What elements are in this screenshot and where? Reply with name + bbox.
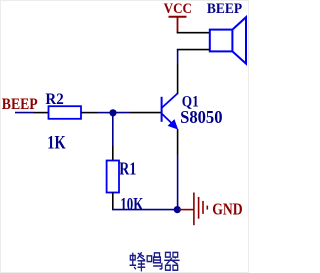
caption 鸣 (ming) xyxy=(147,253,162,269)
svg-text:R1: R1 xyxy=(119,160,136,180)
wire VCC to speaker top pin (black) xyxy=(177,32,210,34)
ground symbol GND xyxy=(194,193,207,226)
value 10K xyxy=(120,195,144,214)
caption 器 (qi) xyxy=(164,252,179,270)
wire node A to Q1 base (navy segment) xyxy=(113,112,130,114)
label R2 xyxy=(45,91,63,108)
power symbol VCC xyxy=(169,17,187,33)
transistor Q1 (NPN S8050) xyxy=(162,93,179,130)
svg-text:BEEP: BEEP xyxy=(207,0,243,16)
wire speaker bottom pin to collector corner (black) xyxy=(177,49,210,51)
label GND xyxy=(212,201,243,219)
svg-text:1K: 1K xyxy=(47,132,66,153)
wire node A down to R1 (black pin segment) xyxy=(112,146,114,161)
label S8050 xyxy=(180,108,223,127)
wire R2 to node A (navy segment) xyxy=(97,112,113,114)
wire down to Q1 collector (black pin segment) xyxy=(177,64,179,94)
node A junction dot xyxy=(109,109,116,116)
label R1 xyxy=(119,160,136,180)
wire emitter to ground node B (navy segment) xyxy=(177,155,179,210)
svg-text:R2: R2 xyxy=(45,91,63,108)
wire BEEP input to R2 (black pin segment) xyxy=(34,112,49,114)
wire R2 to node A (black pin segment) xyxy=(81,112,97,114)
wire R1 down and corner (black pin segment) xyxy=(112,193,114,210)
value 1K xyxy=(47,132,66,153)
speaker LS1 xyxy=(210,17,246,63)
net label BEEP (speaker net) xyxy=(207,0,243,16)
label Q1 xyxy=(182,94,199,111)
svg-text:GND: GND xyxy=(212,201,243,219)
svg-text:VCC: VCC xyxy=(164,0,192,16)
resistor R2 xyxy=(49,106,82,119)
wire collector corner down (navy segment) xyxy=(177,50,179,64)
resistor R1 xyxy=(107,161,119,193)
wire node B to ground symbol (dark red) xyxy=(179,209,194,211)
label VCC xyxy=(164,0,192,16)
svg-text:BEEP: BEEP xyxy=(2,96,38,114)
svg-text:10K: 10K xyxy=(120,195,144,214)
wire R1 corner to ground node B (navy segment) xyxy=(112,209,178,211)
wire BEEP input to R2 (navy segment) xyxy=(15,112,34,114)
node B junction dot xyxy=(174,206,181,213)
caption 蜂 (feng) xyxy=(130,252,146,271)
svg-text:S8050: S8050 xyxy=(180,108,223,127)
wire Q1 emitter down (black pin segment) xyxy=(177,129,179,155)
wire node A down to R1 (navy segment) xyxy=(112,113,114,146)
wire node A to Q1 base (black pin segment) xyxy=(130,112,161,114)
net label BEEP (left input) xyxy=(2,96,38,114)
